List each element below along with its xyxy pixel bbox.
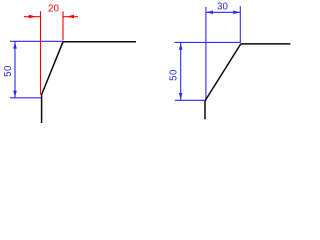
arrowhead left of blue dim 30	[206, 11, 213, 15]
arrowhead top of blue dim 50 right	[179, 43, 183, 50]
arrowhead right of red dim 20	[66, 15, 74, 19]
arrowhead top of blue dim 50 left	[13, 42, 17, 49]
extension line top of blue dim 50 left	[10, 40, 63, 42]
dimension line of blue dim 50 right	[180, 42, 182, 100]
object chamfer diagonal (black, right figure)	[205, 44, 241, 101]
dimension line tail right (red)	[63, 16, 78, 18]
svg-text:30: 30	[217, 2, 228, 13]
object top edge (black, right figure)	[241, 43, 290, 45]
extension line top of blue dim 50 right	[175, 41, 241, 43]
extension line right of red dim 20	[62, 11, 64, 40]
dimension line of blue dim 50 left	[14, 41, 16, 98]
extension line left of blue dim 30	[205, 7, 207, 101]
svg-text:20: 20	[48, 3, 59, 14]
dimension line tail left (red)	[24, 16, 41, 18]
extension line bottom of blue dim 50 right	[175, 99, 205, 101]
object top edge (black, left figure)	[63, 41, 136, 43]
arrowhead bottom of blue dim 50 left	[13, 91, 17, 98]
object chamfer diagonal (black, left figure)	[42, 42, 63, 95]
arrowhead left of red dim 20	[29, 15, 37, 19]
svg-text:50: 50	[3, 65, 14, 77]
object vertical edge (black, left figure)	[41, 95, 43, 123]
arrowhead bottom of blue dim 50 right	[179, 93, 183, 100]
extension line right of blue dim 30	[239, 6, 241, 43]
object vertical edge (black, right figure)	[204, 101, 206, 119]
svg-text:50: 50	[168, 69, 179, 81]
extension line bottom of blue dim 50 left	[10, 97, 42, 99]
dimension line of blue dim 30	[206, 11, 240, 13]
extension line left of red dim 20	[40, 11, 42, 94]
arrowhead right of blue dim 30	[233, 11, 240, 15]
